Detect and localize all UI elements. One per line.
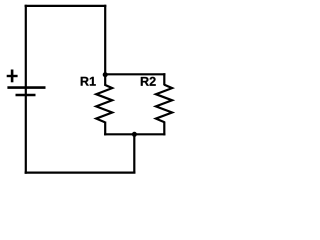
node A junction dot (top of R1) bbox=[103, 72, 108, 77]
wire bottom horizontal bbox=[25, 172, 136, 174]
resistor R2 value label bbox=[141, 77, 156, 86]
wire bottom of parallel pair bbox=[104, 133, 165, 135]
resistor R1 value label bbox=[81, 77, 96, 86]
wire drop from node B bbox=[133, 134, 135, 173]
wire R1 bottom stub bbox=[104, 122, 106, 136]
battery B1 positive plate (long) bbox=[7, 86, 45, 89]
wire top horizontal bbox=[25, 5, 107, 7]
node B junction dot (bottom) bbox=[132, 132, 137, 137]
battery B1 negative plate (short) bbox=[16, 94, 36, 97]
wire left vertical (battery loop) bbox=[25, 5, 27, 174]
wire R2 top stub bbox=[163, 73, 165, 85]
resistor R1 zigzag bbox=[96, 85, 112, 123]
battery polarity + label bbox=[7, 70, 18, 83]
resistor R2 zigzag bbox=[156, 85, 172, 123]
wire R2 bottom stub bbox=[163, 122, 165, 136]
wire right vertical down to R1 bbox=[104, 5, 106, 85]
wire horizontal to R2 branch bbox=[105, 73, 165, 75]
